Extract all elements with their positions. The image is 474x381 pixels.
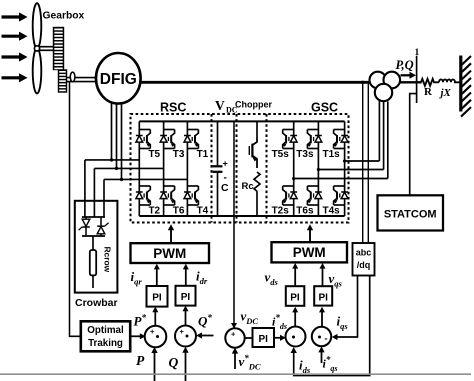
svg-text:T2: T2 (148, 206, 160, 217)
svg-text:+: + (231, 330, 236, 339)
svg-text:T1s: T1s (322, 149, 340, 160)
svg-text:Crowbar: Crowbar (75, 297, 118, 309)
svg-text:GSC: GSC (311, 101, 338, 115)
svg-text:Chopper: Chopper (235, 100, 272, 110)
svg-text:Gearbox: Gearbox (43, 11, 85, 22)
svg-text:+: + (150, 327, 155, 336)
svg-text:T2s: T2s (272, 206, 290, 217)
svg-text:abc: abc (356, 248, 372, 258)
svg-text:P,Q: P,Q (396, 58, 414, 72)
svg-text:PI: PI (258, 334, 268, 345)
svg-text:-: - (325, 334, 328, 344)
svg-text:T6s: T6s (296, 206, 314, 217)
svg-text:Traking: Traking (88, 338, 123, 349)
svg-text:V: V (215, 98, 225, 113)
svg-text:PI: PI (152, 293, 162, 304)
svg-text:P: P (136, 353, 145, 368)
svg-text:T4: T4 (197, 206, 209, 217)
svg-text:+: + (180, 327, 185, 336)
svg-text:jX: jX (439, 87, 452, 99)
svg-text:PI: PI (290, 292, 300, 303)
svg-text:Q: Q (169, 355, 179, 370)
svg-text:PI: PI (318, 292, 328, 303)
svg-text:1: 1 (415, 48, 420, 58)
svg-text:PWM: PWM (293, 245, 326, 260)
svg-text:Optimal: Optimal (87, 325, 124, 336)
svg-text:C: C (221, 182, 229, 194)
svg-text:T5: T5 (148, 149, 160, 160)
svg-text:RSC: RSC (160, 101, 186, 115)
svg-text:T4s: T4s (322, 206, 340, 217)
svg-text:PWM: PWM (153, 246, 186, 261)
svg-text:PI: PI (181, 292, 191, 303)
svg-text:T3s: T3s (296, 149, 314, 160)
svg-text:Rcrow: Rcrow (103, 247, 113, 273)
svg-text:Rc: Rc (242, 181, 254, 192)
svg-text:R: R (424, 86, 433, 98)
svg-text:STATCOM: STATCOM (384, 209, 437, 221)
svg-text:T6: T6 (173, 206, 185, 217)
svg-text:DFIG: DFIG (100, 71, 137, 88)
svg-text:T3: T3 (173, 149, 185, 160)
svg-text:T1: T1 (197, 149, 209, 160)
svg-text:T5s: T5s (272, 149, 290, 160)
svg-text:+: + (223, 159, 228, 169)
svg-text:/dq: /dq (357, 260, 371, 270)
